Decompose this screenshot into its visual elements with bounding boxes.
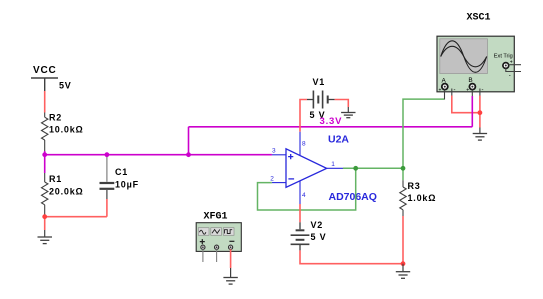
wire top horizontal to scope B (magenta) <box>189 126 473 128</box>
svg-text:1.0kΩ: 1.0kΩ <box>408 193 437 203</box>
wire R1 to ground node (red) <box>44 215 46 231</box>
pin B- <box>479 89 481 97</box>
wire stub to ground (gray) <box>479 128 481 134</box>
ground (below scope) <box>473 134 487 141</box>
battery V1 <box>307 91 335 109</box>
junction node (green) feedback <box>353 166 358 171</box>
svg-text:C1: C1 <box>115 167 128 177</box>
svg-text:+: + <box>466 88 469 94</box>
wire V1 right to ground (red) <box>335 100 349 108</box>
wire scope A- down (red) <box>452 96 480 113</box>
wire V2 to bottom rail (red) <box>300 250 403 263</box>
pin A+ <box>444 90 446 100</box>
wire node to C1 (gray) <box>106 155 108 182</box>
svg-text:3.3V: 3.3V <box>320 116 343 127</box>
svg-text:V2: V2 <box>311 220 324 230</box>
junction node (magenta) at R2/R1 <box>42 152 47 157</box>
wire up to scope channel B + (magenta) <box>471 96 473 127</box>
junction node (red) bottom right <box>401 261 406 266</box>
function generator XFG1 <box>196 223 241 252</box>
svg-text:4: 4 <box>302 192 306 199</box>
pin A- <box>451 89 453 97</box>
terminal A <box>442 84 448 90</box>
wire op-amp V- pin to V2 (red) <box>299 204 301 222</box>
wire R3 bottom to rail (red) <box>402 216 404 264</box>
ground (near V1) <box>341 113 355 118</box>
wire scope B- to ground (red) <box>479 96 481 128</box>
svg-text:VCC: VCC <box>33 65 57 76</box>
wire C1 bottom (red) <box>106 199 108 217</box>
svg-text:AD706AQ: AD706AQ <box>329 191 377 203</box>
wire bottom rail R1/C1 (red) <box>45 216 107 218</box>
power symbol VCC <box>31 78 58 91</box>
op-amp U2A <box>272 132 343 204</box>
svg-text:-: - <box>509 73 511 79</box>
wire node to R1 (magenta) <box>44 155 46 173</box>
wire feedback from inverting input (green) <box>258 168 356 210</box>
svg-text:10µF: 10µF <box>115 179 139 189</box>
svg-text:-: - <box>482 88 484 94</box>
wire stub to ground (gray) <box>402 264 404 272</box>
wire output down to R3 (green) <box>402 168 404 180</box>
pin Ext Trig - <box>506 68 521 71</box>
wire output net (green) <box>343 167 403 169</box>
resistor R1 <box>42 173 48 215</box>
resistor R2 <box>42 113 48 152</box>
svg-text:U2A: U2A <box>328 134 349 146</box>
wire output up to scope A (green) <box>403 99 445 168</box>
wire V1 left to op-amp V+ (red) <box>300 100 307 132</box>
pin B+ <box>471 90 473 97</box>
svg-text:R3: R3 <box>408 181 421 191</box>
svg-text:R2: R2 <box>49 112 62 122</box>
junction node (red) at R1 bottom <box>42 214 47 219</box>
svg-text:XSC1: XSC1 <box>467 13 491 24</box>
svg-text:10.0kΩ: 10.0kΩ <box>49 124 84 134</box>
ground (below XFG1) <box>223 278 237 285</box>
wire R2 to node (magenta) <box>44 151 46 155</box>
terminal Ext Trig <box>503 63 509 69</box>
svg-text:5V: 5V <box>59 81 72 91</box>
ground (bottom left) <box>38 237 53 244</box>
pin Ext Trig + <box>509 64 521 66</box>
ground (bottom right) <box>396 272 410 279</box>
svg-text:+: + <box>439 88 442 94</box>
svg-text:20.0kΩ: 20.0kΩ <box>49 187 84 197</box>
terminal B <box>469 84 475 90</box>
oscilloscope XSC1 <box>437 36 514 92</box>
svg-text:2: 2 <box>270 176 274 183</box>
junction node (magenta) at C1 top <box>105 152 110 157</box>
wire main input net horizontal (magenta) <box>45 154 272 156</box>
stub wire XFG1 common terminal <box>216 249 218 262</box>
wire stub to ground (gray) <box>347 107 349 112</box>
junction node (magenta) branch to scope <box>186 152 191 157</box>
wire VCC to R2 (red) <box>44 91 46 113</box>
wire stub to ground (gray) <box>230 268 232 277</box>
stub wire XFG1 + terminal <box>202 249 204 262</box>
svg-text:R1: R1 <box>49 174 62 184</box>
svg-text:8: 8 <box>302 141 306 148</box>
battery V2 <box>291 222 310 250</box>
svg-text:5 V: 5 V <box>311 232 327 242</box>
resistor R3 <box>400 180 406 216</box>
svg-text:1: 1 <box>331 161 335 168</box>
svg-text:V1: V1 <box>313 77 326 87</box>
junction node (red) scope grounds <box>478 110 483 115</box>
svg-text:3: 3 <box>272 148 276 155</box>
svg-text:+: + <box>510 59 513 65</box>
wire XFG1 - terminal to ground (red) <box>230 249 232 268</box>
wire branch up at node (magenta) <box>188 127 190 155</box>
capacitor C1 <box>100 183 115 199</box>
svg-text:-: - <box>454 88 456 94</box>
svg-text:XFG1: XFG1 <box>204 211 228 222</box>
wire stub to ground (gray) <box>44 230 46 237</box>
junction node (green) at R3 top <box>401 166 406 171</box>
